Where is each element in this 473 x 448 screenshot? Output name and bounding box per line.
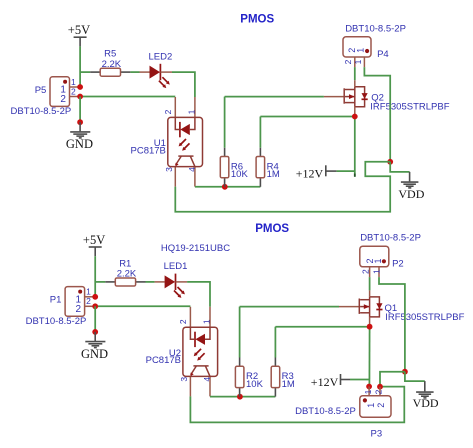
svg-text:1: 1	[186, 109, 196, 114]
svg-text:LED1: LED1	[164, 261, 188, 272]
power VDD (top)	[398, 172, 424, 201]
svg-text:PC817B: PC817B	[146, 355, 181, 366]
svg-text:DBT10-8.5-2P: DBT10-8.5-2P	[295, 406, 356, 417]
wire LED1 to U2 pin1	[187, 282, 210, 307]
wire +5V vertical	[79, 46, 81, 87]
wire LED2 to U1 pin1	[172, 72, 195, 97]
junction P5 pin2	[77, 94, 83, 100]
svg-text:10K: 10K	[231, 169, 249, 180]
wire U2 pin3 return to VDD net	[190, 387, 404, 423]
wire +5V to R5	[80, 71, 90, 73]
svg-text:+12V: +12V	[296, 167, 324, 181]
transistor Q2 IRF5305STRLPBF	[324, 80, 450, 116]
svg-text:PC817B: PC817B	[131, 145, 166, 156]
wire VDD branch	[390, 162, 409, 172]
optocoupler U2 PC817B	[146, 307, 218, 397]
junction VDD net (bottom)	[402, 369, 408, 375]
junction GND	[77, 119, 83, 125]
svg-text:GND: GND	[66, 137, 93, 151]
wire Q2 source drop	[354, 117, 356, 177]
svg-text:HQ19-2151UBC: HQ19-2151UBC	[161, 243, 230, 254]
resistor R2	[235, 358, 263, 397]
wire +12V to Q1 source drop	[350, 379, 369, 381]
svg-text:1: 1	[353, 59, 363, 64]
ground GND (top)	[66, 122, 93, 151]
svg-text:VDD: VDD	[413, 396, 439, 410]
junction R2 bottom	[237, 394, 243, 400]
svg-text:1: 1	[86, 287, 91, 297]
junction VDD net (top)	[387, 159, 393, 165]
wire R5 to LED2	[130, 71, 139, 73]
svg-text:1: 1	[201, 319, 211, 324]
wire +12V to Q2 source	[337, 170, 355, 172]
connector P5	[11, 77, 81, 117]
wire P2.2 to Q1 drain	[369, 277, 371, 290]
svg-text:1M: 1M	[282, 379, 295, 390]
svg-text:3: 3	[179, 377, 189, 382]
junction Q1 source	[367, 324, 373, 330]
wire U1 pin3 return to VDD net	[175, 162, 390, 212]
svg-text:+5V: +5V	[83, 233, 105, 247]
connector P1	[26, 287, 96, 327]
svg-text:2: 2	[76, 304, 82, 315]
resistor R3	[271, 358, 295, 397]
svg-text:2.2K: 2.2K	[102, 59, 122, 70]
junction P1 pin2	[92, 303, 98, 309]
power +12V (top)	[296, 165, 337, 180]
svg-text:+5V: +5V	[68, 23, 90, 37]
svg-text:4: 4	[202, 377, 212, 382]
svg-text:2: 2	[343, 59, 353, 64]
svg-text:IRF5305STRLPBF: IRF5305STRLPBF	[385, 312, 464, 323]
title PMOS (bottom)	[255, 223, 289, 235]
svg-text:DBT10-8.5-2P: DBT10-8.5-2P	[11, 106, 72, 117]
svg-text:PMOS: PMOS	[240, 13, 274, 25]
svg-text:3: 3	[164, 167, 174, 172]
connector P4	[343, 23, 406, 67]
junction P1 pin1	[92, 294, 98, 300]
svg-text:2: 2	[178, 319, 188, 324]
svg-text:P2: P2	[392, 259, 404, 270]
wire U2 pin4 to R2/R3 bottoms	[210, 396, 275, 398]
svg-text:2: 2	[376, 403, 386, 408]
svg-text:10K: 10K	[246, 379, 264, 390]
power +5V (top)	[68, 23, 90, 46]
svg-text:2.2K: 2.2K	[117, 269, 137, 280]
svg-text:2: 2	[374, 389, 384, 394]
svg-text:2: 2	[60, 94, 66, 105]
wire +5V to R1	[95, 281, 105, 283]
wire R3 top to Q1 source junction	[275, 327, 369, 358]
resistor R1	[105, 258, 145, 286]
transistor Q1 IRF5305STRLPBF	[339, 290, 465, 326]
svg-text:PMOS: PMOS	[255, 223, 289, 235]
svg-text:2: 2	[361, 269, 371, 274]
svg-text:2: 2	[86, 296, 91, 306]
wire gate net R2 top to Q1 gate	[240, 307, 339, 358]
svg-text:P3: P3	[371, 428, 383, 439]
svg-text:1: 1	[373, 258, 383, 263]
resistor R6	[220, 148, 248, 187]
svg-text:P4: P4	[377, 49, 389, 60]
wire VDD branch (bottom)	[405, 372, 425, 381]
title PMOS (top)	[240, 13, 274, 25]
svg-text:1: 1	[355, 48, 365, 53]
svg-text:P5: P5	[35, 85, 47, 96]
junction GND (bottom)	[92, 329, 98, 335]
svg-text:1: 1	[363, 389, 373, 394]
wire P4.2 to Q2 drain	[354, 67, 356, 80]
svg-text:4: 4	[187, 167, 197, 172]
junction Q2 source	[352, 114, 358, 120]
wire VDD net to P3.2	[380, 372, 405, 387]
resistor R4	[256, 148, 280, 187]
svg-text:DBT10-8.5-2P: DBT10-8.5-2P	[360, 233, 421, 244]
ground GND (bottom)	[81, 332, 108, 361]
svg-text:1: 1	[71, 77, 76, 87]
connector P3	[295, 387, 391, 440]
wire P1.2 to U2 pin2	[95, 305, 190, 307]
svg-text:GND: GND	[81, 347, 108, 361]
power +5V (bottom)	[83, 233, 105, 256]
junction P3 pin1	[366, 384, 372, 390]
wire P5.2 to GND	[79, 97, 81, 123]
svg-text:1M: 1M	[267, 169, 280, 180]
wire P1.2 to GND	[94, 306, 96, 332]
power +12V (bottom)	[311, 374, 350, 389]
wire P2.1 to VDD net	[379, 277, 405, 372]
svg-text:2: 2	[71, 86, 76, 96]
label HQ19-2151UBC	[161, 243, 230, 254]
svg-text:1: 1	[366, 403, 376, 408]
wire P5.2 to U1 pin2	[80, 96, 175, 98]
junction P3 pin2	[377, 384, 383, 390]
svg-text:DBT10-8.5-2P: DBT10-8.5-2P	[345, 23, 406, 34]
wire R4 top to Q2 source junction	[260, 117, 354, 148]
wire +5V vertical (bottom)	[94, 256, 96, 297]
resistor R5	[90, 49, 130, 77]
wire R1 to LED1	[146, 281, 155, 283]
svg-text:P1: P1	[50, 295, 62, 306]
junction P5 pin1	[77, 84, 83, 90]
svg-text:VDD: VDD	[398, 187, 424, 201]
LED LED2	[140, 51, 173, 88]
wire U1 pin4 to R6/R4 bottoms	[195, 186, 261, 188]
power VDD (bottom)	[413, 381, 439, 410]
svg-text:2: 2	[163, 109, 173, 114]
junction R6 bottom	[222, 184, 228, 190]
svg-text:DBT10-8.5-2P: DBT10-8.5-2P	[26, 316, 87, 327]
svg-text:LED2: LED2	[149, 51, 173, 62]
LED LED1	[155, 261, 188, 298]
svg-text:1: 1	[372, 269, 382, 274]
wire Q1 source drop	[368, 327, 370, 387]
wire gate net R6 top to Q2 gate	[225, 97, 324, 148]
wire P4.1 to VDD net	[364, 67, 390, 162]
svg-text:IRF5305STRLPBF: IRF5305STRLPBF	[370, 102, 449, 113]
connector P2	[360, 233, 421, 278]
optocoupler U1 PC817B	[131, 97, 203, 187]
svg-text:+12V: +12V	[311, 375, 339, 389]
